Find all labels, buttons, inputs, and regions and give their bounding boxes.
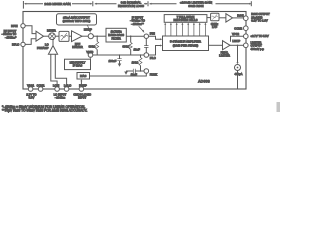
svg-text:DRIVER: DRIVER — [72, 45, 82, 49]
svg-text:–16dBm: –16dBm — [55, 96, 66, 100]
wire BPF driver to MXOP pin — [82, 35, 88, 37]
wire IFHI to 5-stage amp — [148, 36, 162, 40]
block 7 full-wave rectifier cells — [164, 15, 207, 23]
svg-text:10.7MHz: 10.7MHz — [111, 30, 123, 34]
svg-text:0.2V TO 1.8V: 0.2V TO 1.8V — [251, 18, 268, 22]
svg-text:–95dBm TO: –95dBm TO — [2, 32, 17, 36]
svg-text:330Ω: 330Ω — [89, 44, 96, 48]
svg-text:LPF: LPF — [212, 25, 217, 29]
pin IFLO — [144, 53, 156, 61]
wire IFLO to 5-stage amp — [148, 45, 162, 56]
svg-text:100Ω: 100Ω — [132, 60, 139, 64]
resistor R3 100 ohm — [132, 54, 142, 71]
wire LOLO to preamp — [55, 54, 66, 87]
wire LOHI to preamp — [51, 54, 57, 87]
svg-text:PREAMP: PREAMP — [37, 46, 49, 50]
svg-text:IFHI: IFHI — [150, 32, 155, 36]
mid-supply bus wire VMID to IFLO — [93, 54, 145, 56]
svg-text:10nF: 10nF — [134, 47, 141, 51]
capacitor C1 100nF to ground — [108, 54, 121, 63]
svg-text:RFHI: RFHI — [11, 24, 18, 28]
svg-text:MXOP: MXOP — [84, 28, 92, 32]
mixer — [47, 28, 56, 39]
pin IFHI — [144, 32, 155, 39]
svg-text:24dB MIXER GAIN: 24dB MIXER GAIN — [44, 2, 70, 6]
svg-text:(16dB PER STAGE): (16dB PER STAGE) — [173, 43, 198, 47]
svg-text:100nF: 100nF — [108, 59, 116, 63]
svg-text:LIMITER: LIMITER — [219, 54, 230, 58]
wire PRUP to BIAS with arrow — [80, 79, 82, 87]
block BIAS — [77, 73, 90, 80]
pin RFLO — [12, 42, 25, 47]
annotation span 100dB LIMITER GAIN 90dB RSSI — [149, 1, 251, 8]
svg-text:330Ω: 330Ω — [123, 44, 130, 48]
svg-text:400mV p-p: 400mV p-p — [251, 47, 265, 51]
op-amp LO preamp — [37, 43, 58, 55]
svg-text:BIAS: BIAS — [80, 74, 86, 78]
IF bandpass filter symbol — [59, 31, 69, 41]
block 5-stage IF amplifier — [163, 36, 209, 51]
label AD608 — [198, 79, 210, 83]
current source I1 — [234, 45, 242, 76]
ground for C2 — [124, 71, 128, 75]
svg-text:BAND-PASS: BAND-PASS — [108, 33, 124, 37]
footnote 1 — [2, 105, 85, 109]
wire current source to common — [237, 71, 239, 89]
external block 10.7MHz bandpass filter — [106, 28, 126, 42]
block MIDSUPPLY IF BIAS — [65, 57, 91, 70]
pin LOLO — [64, 84, 71, 92]
svg-text:–15dBm**: –15dBm** — [131, 22, 144, 26]
label RF INPUT — [2, 29, 18, 40]
note 5mA MAX OUTPUT callout — [57, 14, 97, 33]
wire LO preamp to mixer — [52, 40, 54, 46]
footnote 2 — [2, 109, 88, 113]
svg-text:RSSI: RSSI — [237, 13, 244, 17]
svg-text:+2.7V TO 5.5V: +2.7V TO 5.5V — [251, 34, 269, 38]
svg-text:5.5V: 5.5V — [29, 96, 35, 100]
pin COM2 — [234, 26, 248, 31]
wire mixer to IF filter — [55, 35, 59, 37]
svg-text:(±825mV INTO 165Ω): (±825mV INTO 165Ω) — [63, 19, 91, 23]
wire rectifier to LPF — [207, 17, 211, 19]
svg-text:–15dBm*: –15dBm* — [5, 36, 17, 40]
pin LOHI — [53, 84, 60, 92]
pin FDBK — [144, 69, 157, 77]
label IF INPUT -75dBm TO -15dBm — [130, 15, 145, 33]
wire filter to BPF driver — [69, 35, 72, 37]
svg-text:COM2: COM2 — [234, 26, 242, 30]
svg-text:VPS2: VPS2 — [232, 32, 240, 36]
svg-text:10nF: 10nF — [131, 73, 138, 77]
capacitor C2 10nF in FDBK line — [126, 69, 144, 77]
svg-text:INSERTION LOSS: INSERTION LOSS — [118, 4, 144, 8]
svg-text:PRUP: PRUP — [79, 84, 87, 88]
svg-text:RF INPUT: RF INPUT — [4, 29, 17, 33]
op-amp RF input buffer — [36, 31, 44, 41]
annotation span 3dB NOMINAL INSERTION LOSS — [95, 1, 148, 8]
svg-text:IFLO: IFLO — [150, 56, 156, 60]
wire VPS2 into limiter — [231, 36, 244, 42]
wire limiter to LMOP pin — [230, 39, 244, 45]
pin COM1 — [37, 84, 45, 92]
wire bandpass filter to IFHI pin — [126, 35, 144, 37]
pin RSSI — [244, 16, 249, 21]
wire MXOP to bandpass filter — [93, 35, 106, 37]
svg-text:FILTER: FILTER — [111, 37, 120, 41]
svg-text:LOLO: LOLO — [64, 84, 71, 88]
capacitor C3 10nF IFHI to IFLO — [134, 38, 149, 52]
page artifact right edge — [277, 102, 281, 112]
op-amp RSSI buffer — [226, 14, 233, 22]
svg-text:FDBK: FDBK — [150, 72, 158, 76]
svg-text:LMOP: LMOP — [232, 39, 240, 43]
label LO INPUT — [54, 93, 67, 100]
pin VPS2 — [232, 32, 269, 38]
label RSSI OUTPUT — [251, 12, 270, 22]
svg-text:COM1: COM1 — [37, 84, 45, 88]
op-amp final limiter — [219, 41, 230, 58]
pin LMOP — [244, 41, 265, 51]
svg-text:INPUT: INPUT — [78, 96, 87, 100]
pin PRUP — [79, 84, 87, 92]
svg-text:90dB RSSI: 90dB RSSI — [188, 4, 203, 8]
op-amp BPF DRIVER — [72, 31, 83, 49]
svg-text:VPS1: VPS1 — [27, 84, 35, 88]
pin VPS1 — [27, 84, 35, 92]
resistor R1 330 ohm — [89, 36, 99, 55]
pin VMID — [86, 50, 93, 57]
wire RSSI buffer to RSSI pin — [233, 13, 244, 18]
node junction at 330ohm R1 — [96, 35, 98, 37]
wire RFHI input to buffer — [25, 26, 36, 34]
svg-text:IF BIAS: IF BIAS — [73, 64, 83, 68]
wire buffer to mixer — [44, 35, 49, 37]
svg-text:VMID: VMID — [86, 50, 93, 54]
rectifier tap arrows — [164, 23, 206, 37]
pin RFHI — [11, 24, 25, 28]
label 2.7V TO 5.5V supply — [26, 93, 36, 100]
annotation span 24dB MIXER GAIN — [23, 1, 92, 9]
svg-text:400μA: 400μA — [234, 72, 242, 76]
pin MXOP — [84, 28, 94, 39]
node junction at 330ohm R2 — [130, 35, 132, 37]
wire BIAS to FDBK — [90, 73, 147, 76]
svg-text:RECTIFIER CELLS: RECTIFIER CELLS — [174, 18, 198, 22]
label CMOS LOGIC INPUT — [73, 93, 91, 100]
ground for C1 — [118, 64, 122, 67]
wire RFLO input to buffer — [25, 39, 36, 45]
svg-text:LOHI: LOHI — [53, 84, 60, 88]
chip outline AD608 — [23, 12, 246, 90]
wire LPF to RSSI buffer — [219, 17, 226, 19]
resistor R2 330 ohm — [123, 36, 133, 55]
wire 5-stage amp to final limiter — [209, 44, 223, 46]
svg-text:**75μV RMS TO 56mV RMS FOR ±1d: **75μV RMS TO 56mV RMS FOR ±1dB RSSI ACC… — [2, 109, 88, 113]
svg-text:RFLO: RFLO — [12, 43, 19, 47]
svg-text:AD608: AD608 — [198, 79, 210, 83]
svg-text:MIXER: MIXER — [47, 28, 56, 32]
block 3MHz LPF — [211, 13, 219, 29]
